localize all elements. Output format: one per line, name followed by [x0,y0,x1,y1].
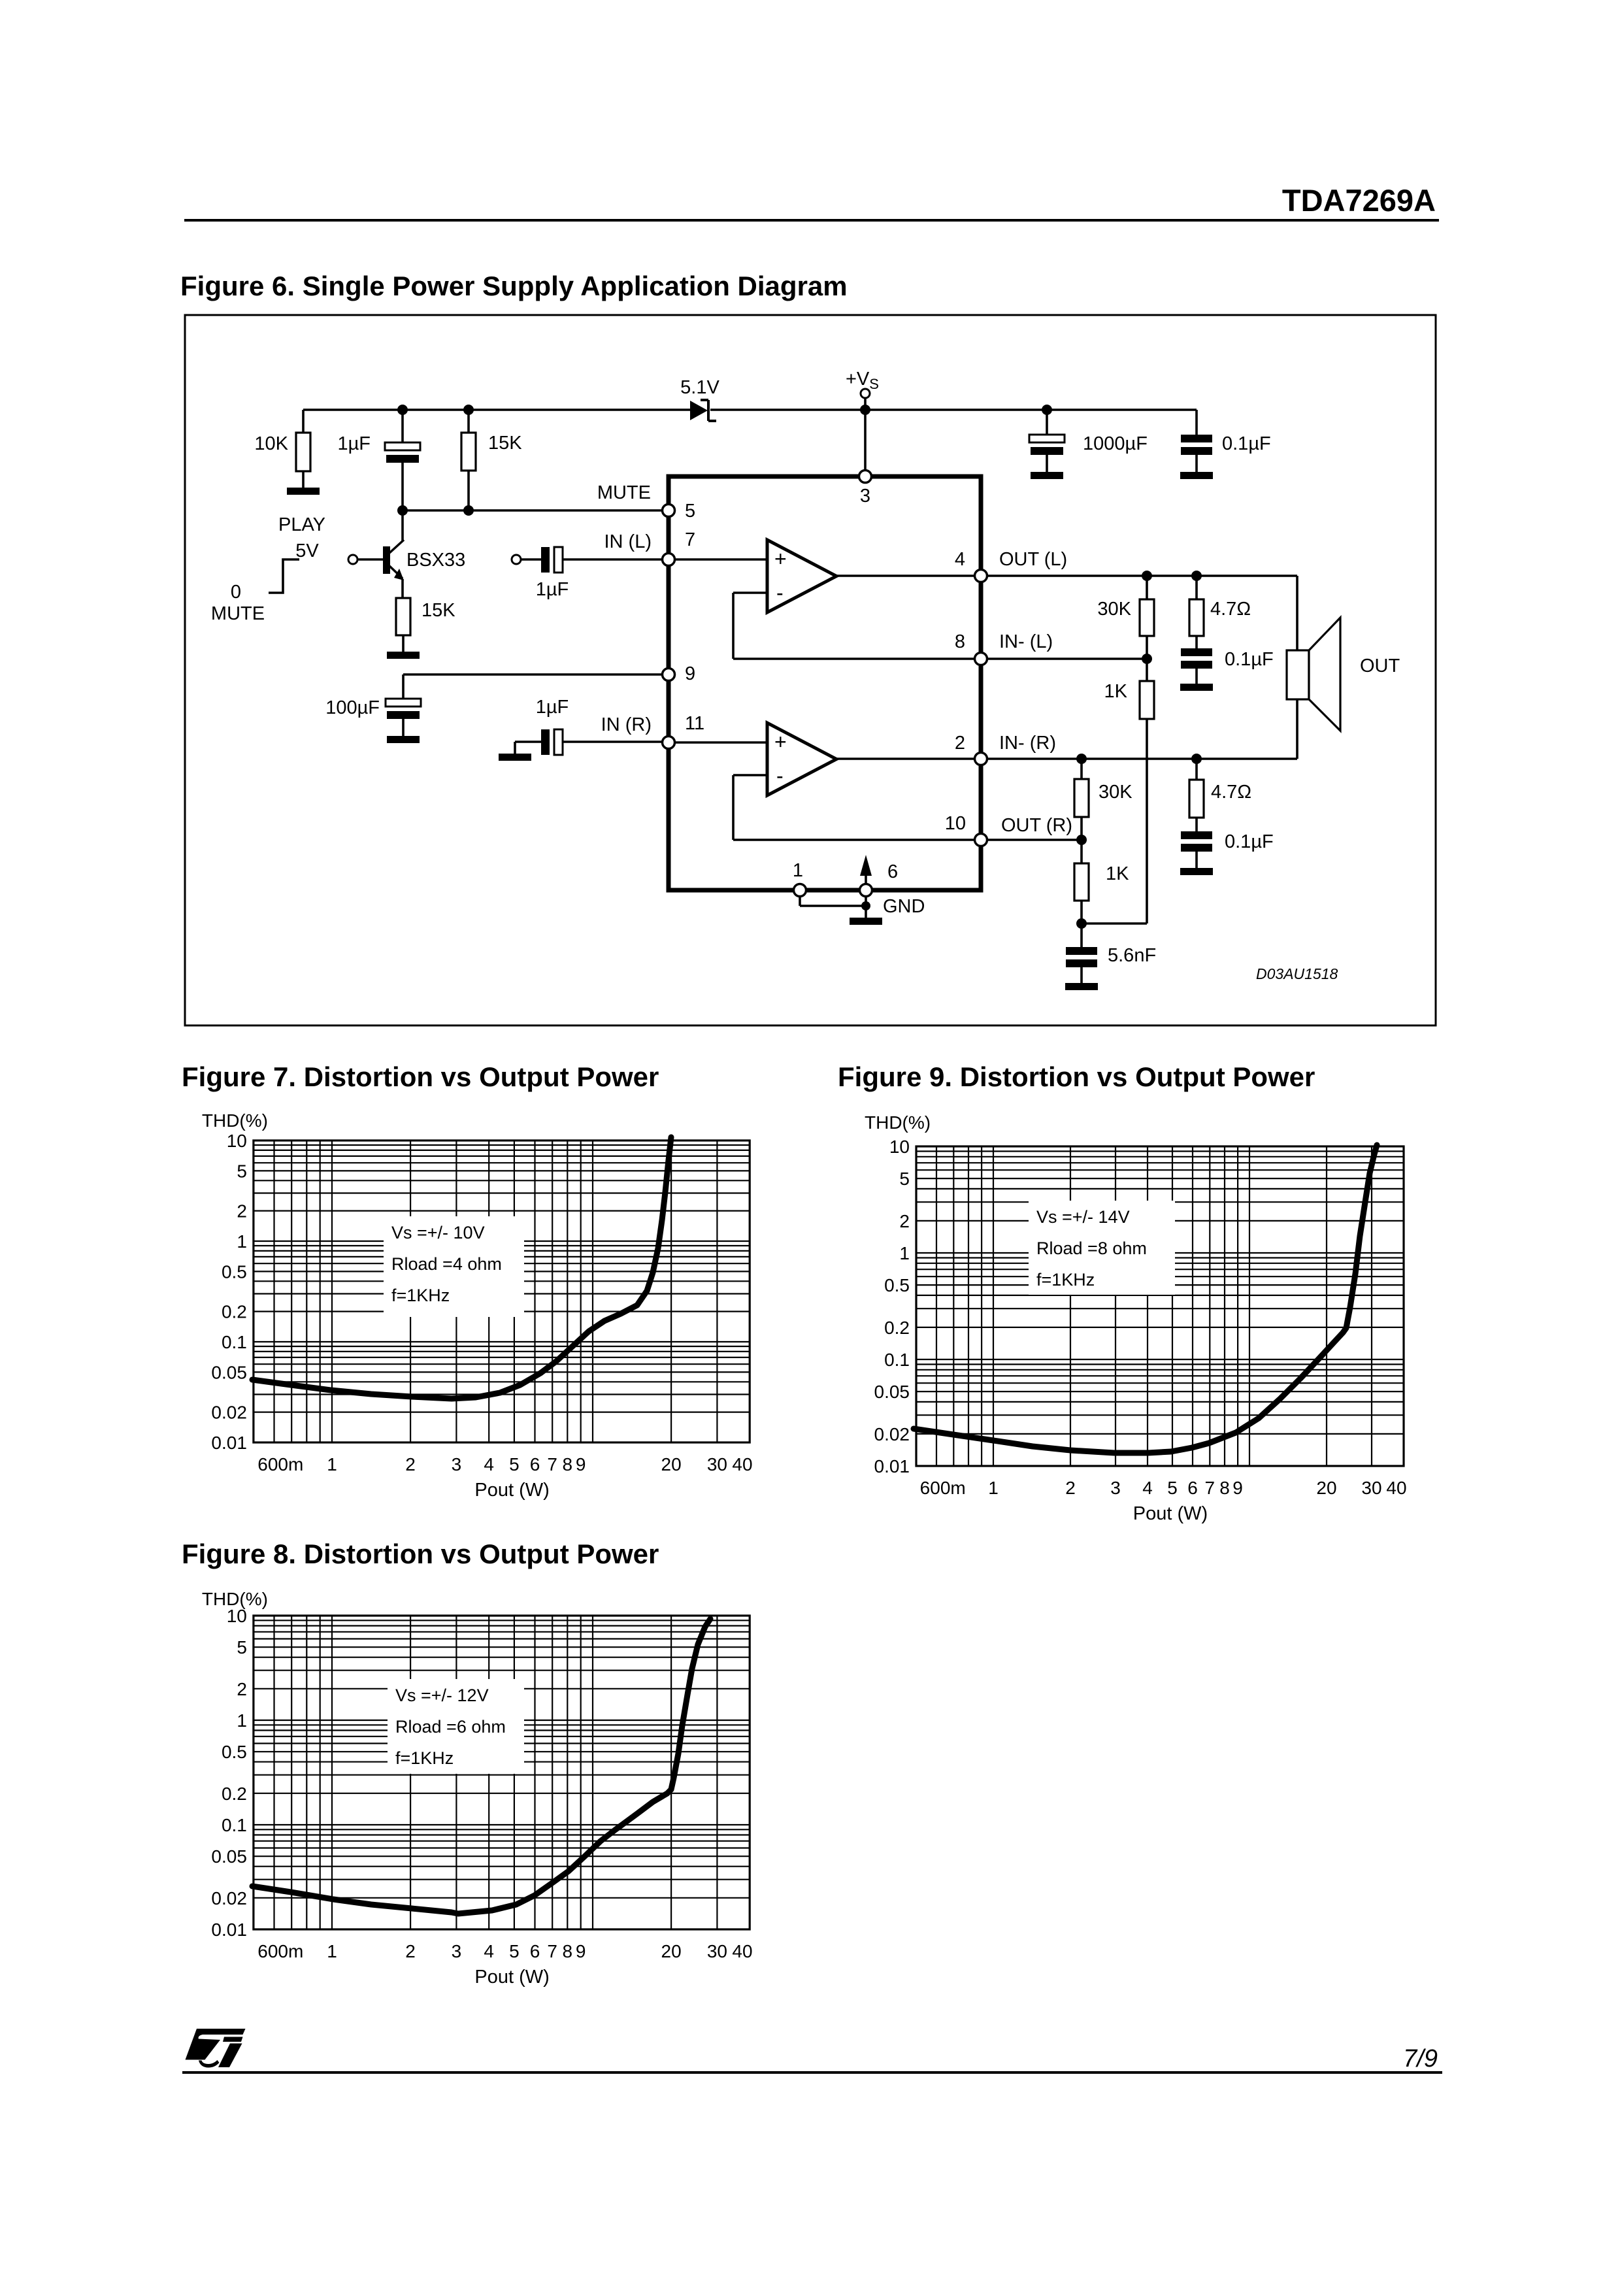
svg-text:100µF: 100µF [325,697,380,718]
Figure 7. Distortion vs Output Power x axis labels [257,1454,752,1501]
svg-text:5: 5 [509,1941,520,1961]
ground (GND pins) [850,918,882,925]
svg-text:4: 4 [484,1454,494,1474]
Figure 8. Distortion vs Output Power y axis labels [202,1589,268,1940]
svg-text:Figure 8. Distortion vs Output: Figure 8. Distortion vs Output Power [182,1539,659,1569]
svg-text:3: 3 [860,486,870,507]
capacitor 0.1µF (R Boucherot) [1181,831,1274,852]
svg-text:8: 8 [563,1454,573,1474]
svg-text:0.02: 0.02 [211,1403,247,1423]
svg-text:1µF: 1µF [536,579,569,600]
terminal +VS [846,369,879,471]
svg-text:1000µF: 1000µF [1083,433,1148,454]
svg-text:Pout (W): Pout (W) [1133,1503,1208,1524]
wire 10K to ground [302,471,305,488]
ground (R Boucherot) [1180,868,1213,875]
svg-text:1µF: 1µF [337,433,371,454]
svg-text:11: 11 [685,713,704,734]
svg-text:BSX33: BSX33 [406,550,465,571]
Figure 7. Distortion vs Output Power axes frame [254,1140,750,1442]
svg-text:0.2: 0.2 [884,1318,910,1338]
svg-text:2: 2 [405,1454,416,1474]
svg-text:20: 20 [1316,1478,1336,1498]
resistor 30K (L feedback) [1097,599,1154,636]
header part number TDA7269A [1282,183,1436,218]
svg-text:1K: 1K [1104,681,1128,702]
svg-text:9: 9 [576,1454,586,1474]
node junction rail/15K [463,405,474,433]
svg-text:10: 10 [945,813,966,834]
node junction IN-(R)/4.7Ω [1191,754,1202,780]
pin 6 [860,861,899,897]
svg-text:0.5: 0.5 [884,1275,910,1295]
svg-text:6: 6 [1187,1478,1198,1498]
wire 0.1µF to ground [1195,455,1198,472]
wire OUT(R) pin 10 to 30K [987,815,1087,845]
svg-text:9: 9 [576,1941,586,1961]
input terminal IN(L) [512,555,542,564]
svg-text:6: 6 [530,1941,540,1961]
svg-text:7: 7 [1205,1478,1215,1498]
wire 0.1µF(L) to ground [1195,669,1198,684]
wire U2 feedback to pin 10 [733,775,975,840]
svg-text:6: 6 [887,861,898,882]
svg-text:1K: 1K [1106,863,1129,884]
svg-text:600m: 600m [920,1478,966,1498]
Figure 7. Distortion vs Output Power caption [182,1061,659,1092]
svg-text:2: 2 [955,733,965,754]
wire emitter to 15K [401,579,404,598]
svg-text:2: 2 [237,1201,247,1222]
capacitor 1µF IN(L) coupling [536,547,569,600]
op-amp U1 (left channel) [767,540,836,612]
svg-text:1: 1 [793,860,803,881]
svg-text:Pout (W): Pout (W) [474,1967,549,1988]
pin 5 [663,501,696,522]
svg-text:IN- (L): IN- (L) [999,631,1053,652]
svg-text:1: 1 [237,1231,247,1252]
Figure 8. Distortion vs Output Power curve [252,1619,710,1914]
svg-text:4: 4 [1142,1478,1153,1498]
svg-text:MUTE: MUTE [597,482,651,503]
svg-text:8: 8 [1219,1478,1230,1498]
node junction rail/1000µF [1042,405,1052,435]
capacitor 100µF (SVR) [325,697,421,719]
svg-text:Figure 6. Single Power Supply: Figure 6. Single Power Supply Applicatio… [180,271,848,301]
svg-text:5.1V: 5.1V [680,377,719,398]
svg-text:3: 3 [1110,1478,1121,1498]
svg-text:5: 5 [237,1161,247,1181]
svg-text:THD(%): THD(%) [865,1112,931,1133]
svg-text:0.05: 0.05 [211,1362,247,1382]
Figure 9. Distortion vs Output Power legend box [1029,1201,1175,1295]
svg-text:15K: 15K [422,600,455,621]
footer page number [1403,2045,1438,2072]
svg-text:0.02: 0.02 [874,1424,910,1444]
pin 9 [663,663,696,684]
svg-text:1µF: 1µF [536,697,569,718]
speaker OUT [1287,576,1400,759]
Figure 7. Distortion vs Output Power curve [252,1137,671,1399]
Figure 7. Distortion vs Output Power legend box [384,1216,524,1317]
svg-text:2: 2 [405,1941,416,1961]
zener diode 5.1V [680,377,719,421]
capacitor 5.6nF [1066,923,1156,967]
capacitor 0.1µF (supply) [1181,433,1271,455]
svg-text:5V: 5V [295,541,319,561]
svg-text:0.1: 0.1 [884,1350,910,1370]
wire 15K to mute wire [467,471,470,510]
ground (below 10K) [287,488,320,495]
svg-text:0.1: 0.1 [222,1815,247,1835]
wire 1K(R) to 5.6nF node [1076,901,1147,929]
svg-text:THD(%): THD(%) [202,1589,268,1609]
arrow into pin 6 [860,855,872,884]
svg-text:0.1: 0.1 [222,1332,247,1352]
svg-text:10: 10 [889,1137,910,1157]
svg-text:0.01: 0.01 [211,1433,247,1453]
svg-text:5: 5 [237,1637,247,1657]
svg-text:4.7Ω: 4.7Ω [1211,782,1251,803]
svg-text:1: 1 [327,1941,337,1961]
svg-text:5: 5 [899,1169,910,1189]
ground (below 5.6nF) [1065,983,1098,990]
node junction rail/1µF [397,405,408,442]
Figure 8. Distortion vs Output Power x axis labels [257,1941,752,1988]
header rule [184,219,1439,222]
wire IN(R) to pin 11 [563,714,662,742]
svg-text:4: 4 [955,549,965,570]
svg-text:Pout (W): Pout (W) [474,1480,549,1501]
capacitor 1µF IN(R) coupling [536,697,569,755]
resistor 15K (emitter) [396,598,455,635]
wire U1 feedback to pin 8 [733,593,975,659]
resistor 10K [254,433,310,471]
svg-text:600m: 600m [257,1454,303,1474]
resistor 30K (R feedback) [1074,779,1132,817]
wire U2 output to pin 2 [836,757,975,760]
footer rule [182,2071,1442,2074]
figure 6 frame [185,315,1436,1025]
svg-text:0.2: 0.2 [222,1784,247,1804]
svg-text:30: 30 [1361,1478,1381,1498]
svg-text:7: 7 [685,529,695,550]
svg-text:2: 2 [237,1679,247,1699]
pin 11 [663,713,705,749]
ground (below supply 0.1µF) [1180,472,1213,479]
svg-text:f=1KHz: f=1KHz [1036,1270,1095,1289]
svg-text:+: + [774,730,787,754]
ground (emitter 15K) [387,652,420,659]
footer ST logo [186,2029,246,2068]
pin 3 [859,471,872,507]
svg-text:1: 1 [988,1478,999,1498]
svg-text:7: 7 [547,1941,557,1961]
svg-text:15K: 15K [488,433,522,454]
svg-text:Vs =+/- 10V: Vs =+/- 10V [391,1223,485,1242]
transistor Q1 BSX33 [348,540,465,580]
svg-text:600m: 600m [257,1941,303,1961]
node junction IN-(R)/30K [1076,754,1087,779]
svg-text:40: 40 [1386,1478,1406,1498]
svg-text:Rload =6 ohm: Rload =6 ohm [395,1717,506,1737]
svg-text:30K: 30K [1097,599,1131,620]
svg-text:0.02: 0.02 [211,1888,247,1908]
ground (IN(R) return) [499,742,541,761]
svg-text:Rload =8 ohm: Rload =8 ohm [1036,1239,1147,1258]
svg-text:5: 5 [1167,1478,1178,1498]
svg-text:10K: 10K [254,433,288,454]
pin 7 [663,529,696,566]
node junction rail/10K riser [302,410,305,433]
svg-text:30: 30 [707,1941,727,1961]
svg-text:2: 2 [1065,1478,1076,1498]
wire 4.7Ω(R) to 0.1µF [1195,818,1198,831]
svg-text:MUTE: MUTE [211,603,265,624]
svg-text:7/9: 7/9 [1403,2045,1438,2072]
wire pin 7 to U1 + input [662,558,767,561]
wire 100µF to ground [402,719,405,736]
wire pin 9 to SVR cap [403,674,662,699]
resistor 15K (pull-up) [461,433,522,471]
svg-text:THD(%): THD(%) [202,1110,268,1131]
capacitor 1000µF (supply) [1029,433,1148,455]
svg-text:0.05: 0.05 [874,1382,910,1402]
wire 15K emitter to ground [402,635,405,652]
waveform PLAY/MUTE 5V step [211,514,325,624]
Figure 9. Distortion vs Output Power grid [916,1146,1404,1466]
pin 8 [955,631,987,665]
svg-text:9: 9 [685,663,695,684]
svg-text:5.6nF: 5.6nF [1108,945,1156,966]
svg-text:2: 2 [899,1211,910,1231]
Figure 8. Distortion vs Output Power axes frame [254,1616,750,1929]
svg-text:OUT (L): OUT (L) [999,549,1067,570]
pin 1 [793,860,806,897]
wire +Vs supply rail [303,408,1197,411]
svg-text:1: 1 [237,1710,247,1731]
capacitor 1µF (mute timing) [337,433,420,463]
wire IN(L) to pin 7 [563,531,662,559]
svg-text:GND: GND [883,896,925,917]
node junction OUT(L)/4.7Ω [1191,571,1202,599]
wire IN-(L) pin 8 to 30K [987,631,1152,664]
svg-text:PLAY: PLAY [278,514,325,535]
svg-text:IN- (R): IN- (R) [999,733,1056,754]
resistor 1K (L feedback) [1104,659,1154,719]
svg-text:6: 6 [530,1454,540,1474]
svg-text:40: 40 [732,1454,752,1474]
wire 1000µF to ground [1046,455,1048,472]
svg-text:3: 3 [452,1941,462,1961]
svg-text:8: 8 [955,631,965,652]
wire 1µF to mute node [401,463,404,510]
svg-text:TDA7269A: TDA7269A [1282,183,1436,218]
svg-text:0.5: 0.5 [222,1742,247,1762]
svg-text:0.1µF: 0.1µF [1225,831,1274,852]
svg-text:3: 3 [452,1454,462,1474]
svg-text:0.01: 0.01 [874,1456,910,1476]
svg-text:5: 5 [509,1454,520,1474]
wire IN-(R) pin 2 to speaker [987,733,1297,759]
pin 4 [955,549,987,582]
pin 2 [955,733,987,765]
svg-text:10: 10 [227,1131,247,1151]
svg-text:0.01: 0.01 [211,1920,247,1940]
wire 4.7Ω(L) to 0.1µF [1195,636,1198,648]
wire pin 11 to U2 + input [662,741,767,744]
svg-text:30K: 30K [1099,782,1132,803]
Figure 7. Distortion vs Output Power y axis labels [202,1110,268,1453]
svg-text:40: 40 [732,1941,752,1961]
IC TDA7269A body [669,476,981,890]
svg-text:4.7Ω: 4.7Ω [1210,599,1251,620]
svg-text:+: + [774,547,787,571]
Figure 9. Distortion vs Output Power y axis labels [865,1112,931,1476]
Figure 9. Distortion vs Output Power axes frame [916,1146,1404,1466]
capacitor 0.1µF (L Boucherot) [1181,648,1274,670]
node junction OUT(L)/30K [1142,571,1152,599]
wire 0.1µF(R) to ground [1195,852,1198,868]
svg-text:20: 20 [661,1454,682,1474]
Figure 9. Distortion vs Output Power curve [914,1145,1377,1453]
svg-text:OUT: OUT [1360,656,1400,676]
svg-text:D03AU1518: D03AU1518 [1256,965,1338,982]
svg-text:Figure 9. Distortion vs Output: Figure 9. Distortion vs Output Power [838,1061,1315,1092]
ground (L Boucherot) [1180,684,1213,691]
svg-text:0: 0 [231,582,241,603]
svg-text:Vs =+/- 14V: Vs =+/- 14V [1036,1207,1130,1227]
svg-text:-: - [776,764,784,788]
pin 10 [945,813,987,846]
Figure 8. Distortion vs Output Power grid [254,1616,750,1929]
svg-text:Figure 7. Distortion vs Output: Figure 7. Distortion vs Output Power [182,1061,659,1092]
svg-text:20: 20 [661,1941,682,1961]
svg-text:f=1KHz: f=1KHz [391,1286,450,1305]
wire pins 1,6 to GND [800,896,925,918]
svg-text:1: 1 [327,1454,337,1474]
Figure 9. Distortion vs Output Power caption [838,1061,1315,1092]
svg-text:9: 9 [1232,1478,1243,1498]
svg-text:IN (R): IN (R) [601,714,652,735]
svg-text:4: 4 [484,1941,494,1961]
ground (below 1000µF) [1031,472,1063,479]
svg-text:-: - [776,581,784,605]
wire OUT(L) pin 4 to speaker [987,549,1297,576]
op-amp U2 (right channel) [767,723,836,795]
svg-text:Rload =4 ohm: Rload =4 ohm [391,1254,502,1274]
svg-text:7: 7 [547,1454,557,1474]
Figure 8. Distortion vs Output Power legend box [388,1679,524,1774]
svg-text:OUT (R): OUT (R) [1001,815,1072,836]
resistor 1K (R feedback) [1074,840,1129,901]
svg-text:8: 8 [563,1941,573,1961]
resistor 4.7Ω (R Boucherot) [1189,780,1251,818]
Figure 7. Distortion vs Output Power grid [254,1140,750,1442]
svg-text:0.1µF: 0.1µF [1225,649,1274,670]
ground (below 100µF) [387,736,420,743]
svg-text:30: 30 [707,1454,727,1474]
wire MUTE net to pin 5 [397,482,662,516]
wire rail corner to 0.1µF [1195,410,1198,435]
wire 5.6nF to ground [1080,967,1083,983]
svg-text:IN (L): IN (L) [604,531,652,552]
svg-text:0.05: 0.05 [211,1846,247,1867]
svg-text:1: 1 [899,1243,910,1263]
svg-text:5: 5 [685,501,695,522]
label diagram id D03AU1518 [1256,965,1338,982]
svg-text:0.1µF: 0.1µF [1222,433,1271,454]
svg-text:0.2: 0.2 [222,1302,247,1322]
figure 6 caption [180,271,848,301]
wire collector to mute node [401,510,404,541]
svg-text:Vs =+/- 12V: Vs =+/- 12V [395,1686,489,1705]
svg-text:f=1KHz: f=1KHz [395,1748,454,1768]
wire U1 output to pin 4 [836,574,975,577]
svg-text:0.5: 0.5 [222,1261,247,1282]
wire 1K(L) down to 5.6nF node [1146,719,1148,923]
Figure 9. Distortion vs Output Power x axis labels [920,1478,1407,1524]
resistor 4.7Ω (L Boucherot) [1189,599,1251,636]
Figure 8. Distortion vs Output Power caption [182,1539,659,1569]
